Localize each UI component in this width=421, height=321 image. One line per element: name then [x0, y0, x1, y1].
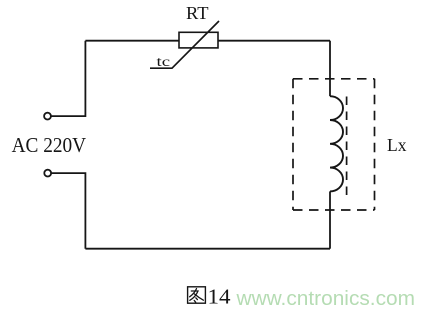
dashed core line beside coil: [346, 97, 348, 199]
wire right lower (coil to bottom corner): [329, 191, 331, 248]
terminal bottom (AC source): [44, 170, 51, 177]
wire left upper (terminal to top corner): [51, 41, 85, 116]
svg-text:RT: RT: [186, 3, 209, 23]
svg-text:Lx: Lx: [387, 135, 407, 155]
thermistor tc stroke (foot + diagonal): [150, 21, 219, 68]
caption glyph 图 (drawn): [188, 287, 206, 303]
dashed box around Lx : top edge: [293, 78, 375, 80]
dashed box around Lx : bottom edge: [293, 209, 375, 211]
wire bottom: [85, 248, 330, 250]
dashed box around Lx : left edge: [292, 79, 294, 210]
resistor RT body: [179, 32, 218, 48]
svg-text:tc: tc: [157, 55, 171, 70]
dashed box around Lx : right edge: [374, 79, 376, 210]
svg-text:14: 14: [208, 284, 231, 308]
wire top (left segment to RT): [85, 40, 179, 42]
terminal top (AC source): [44, 113, 51, 120]
wire right upper (top corner down to coil): [329, 41, 331, 96]
inductor Lx coil: [330, 96, 343, 191]
svg-text:www.cntronics.com: www.cntronics.com: [235, 288, 415, 310]
wire left lower (terminal to bottom corner): [51, 173, 85, 249]
svg-text:AC 220V: AC 220V: [12, 133, 87, 157]
wire top (RT to right corner): [218, 40, 330, 42]
